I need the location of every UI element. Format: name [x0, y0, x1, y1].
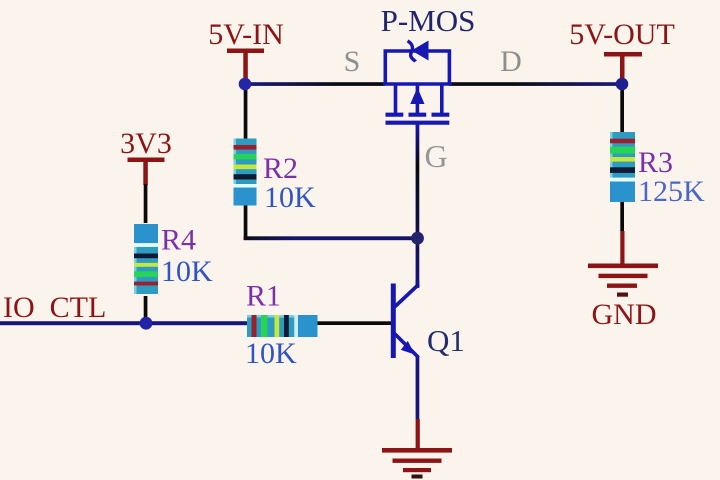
svg-text:10K: 10K [161, 255, 213, 288]
transistor P-MOS body [383, 41, 452, 127]
resistor R3 (body) [610, 132, 635, 202]
P-MOS diode triangle [412, 41, 429, 61]
svg-text:3V3: 3V3 [120, 127, 172, 160]
wire R3 to GND [620, 200, 624, 231]
wire 5V-OUT stub (red) [620, 55, 625, 80]
wire Q1 emitter to GND (red part) [416, 419, 420, 450]
svg-text:D: D [500, 45, 522, 78]
wire 5V-OUT node to R3 [620, 83, 624, 133]
svg-text:S: S [344, 45, 361, 78]
P-MOS body-diode loop [385, 51, 449, 84]
svg-text:GND: GND [592, 298, 657, 331]
P-MOS gate plate [386, 121, 450, 125]
wire IO_CTL to R1 [0, 321, 248, 325]
P-MOS channel dash 3 [432, 113, 450, 117]
wire P-MOS drain to 5V-OUT node [449, 82, 623, 86]
wire R2 to gate corner [244, 205, 248, 240]
svg-text:Q1: Q1 [427, 323, 465, 358]
svg-text:125K: 125K [638, 175, 705, 208]
junction node 5V-OUT [616, 78, 629, 91]
Q1 collector diagonal [395, 285, 419, 308]
P-MOS bulk vertical [416, 84, 420, 113]
Q1 emitter arrow [401, 341, 415, 355]
P-MOS source stub [394, 84, 398, 113]
wire gate corner to gate node [244, 236, 419, 240]
resistor R1 (body) [247, 315, 318, 337]
wire 5V-IN stub (red) [243, 51, 248, 79]
svg-text:IO CTL: IO CTL [3, 291, 106, 324]
svg-text:10K: 10K [264, 181, 316, 214]
power bar 5V-OUT [604, 52, 642, 57]
ground symbol (R3) [588, 264, 658, 297]
P-MOS gate lead [416, 123, 420, 127]
resistor R4 (body) [134, 224, 158, 294]
P-MOS bulk arrow [410, 88, 424, 105]
junction node gate [411, 232, 424, 245]
power bar 3V3 [128, 158, 165, 163]
wire 5V-IN node to P-MOS source [245, 82, 385, 86]
svg-text:G: G [424, 138, 447, 174]
Q1 base bar [391, 284, 396, 359]
junction node IO_CTL [140, 317, 153, 330]
wire 3V3 stub (red) [143, 160, 148, 185]
P-MOS channel dash 1 [386, 113, 404, 117]
wire R1 to Q1 base [316, 321, 391, 325]
wire P-MOS gate down to Q1 collector [416, 124, 420, 288]
wire R3 to GND (red part) [620, 231, 624, 265]
Q1 emitter diagonal [395, 334, 419, 358]
P-MOS channel dash 2 [409, 113, 427, 117]
transistor Q1 [391, 280, 419, 358]
svg-text:5V-IN: 5V-IN [208, 18, 284, 51]
svg-text:P-MOS: P-MOS [381, 3, 476, 38]
junction node 5V-IN [239, 78, 252, 91]
P-MOS diode cathode squiggle [408, 41, 416, 62]
svg-text:R4: R4 [161, 224, 196, 257]
P-MOS source-drain bar [383, 82, 452, 86]
svg-text:5V-OUT: 5V-OUT [569, 18, 675, 51]
svg-text:R1: R1 [246, 280, 281, 313]
wire Q1 emitter to GND (navy) [416, 356, 420, 419]
ground symbol (Q1 emitter) [382, 448, 452, 479]
power bar 5V-IN [227, 49, 264, 54]
wire R4 to IO_CTL node [144, 296, 148, 323]
wire 5V-IN node to R2 [244, 83, 248, 140]
Q1 collector lead [416, 280, 420, 286]
wire 3V3 to R4 [144, 184, 148, 223]
svg-text:10K: 10K [245, 337, 297, 370]
resistor R2 (body) [234, 139, 257, 206]
P-MOS drain stub [440, 84, 444, 113]
